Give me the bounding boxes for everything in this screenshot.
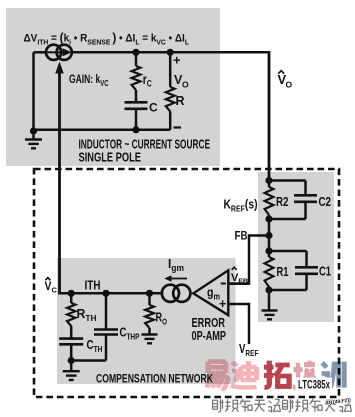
svg-text:R1: R1 [277,264,289,279]
svg-text:R: R [176,94,185,108]
svg-text:SINGLE POLE: SINGLE POLE [79,151,142,165]
svg-text:O: O [182,80,189,90]
svg-text:ITH: ITH [85,278,101,293]
svg-text:+: + [173,53,181,68]
svg-text:COMPENSATION NETWORK: COMPENSATION NETWORK [96,372,213,386]
svg-text:C: C [149,101,158,115]
svg-text:0P-AMP: 0P-AMP [192,328,227,343]
svg-text:R2: R2 [276,194,289,209]
svg-text:INDUCTOR ~ CURRENT SOURCE: INDUCTOR ~ CURRENT SOURCE [79,138,211,152]
svg-text:FB: FB [235,231,248,243]
svg-text:V: V [45,279,52,293]
svg-text:FB: FB [238,277,249,286]
svg-text:LTC385x: LTC385x [298,378,330,392]
svg-text:O: O [286,80,293,90]
svg-text:+: + [219,297,226,311]
svg-text:C: C [52,286,58,295]
svg-text:C1: C1 [319,264,331,279]
svg-text:C2: C2 [319,194,332,209]
